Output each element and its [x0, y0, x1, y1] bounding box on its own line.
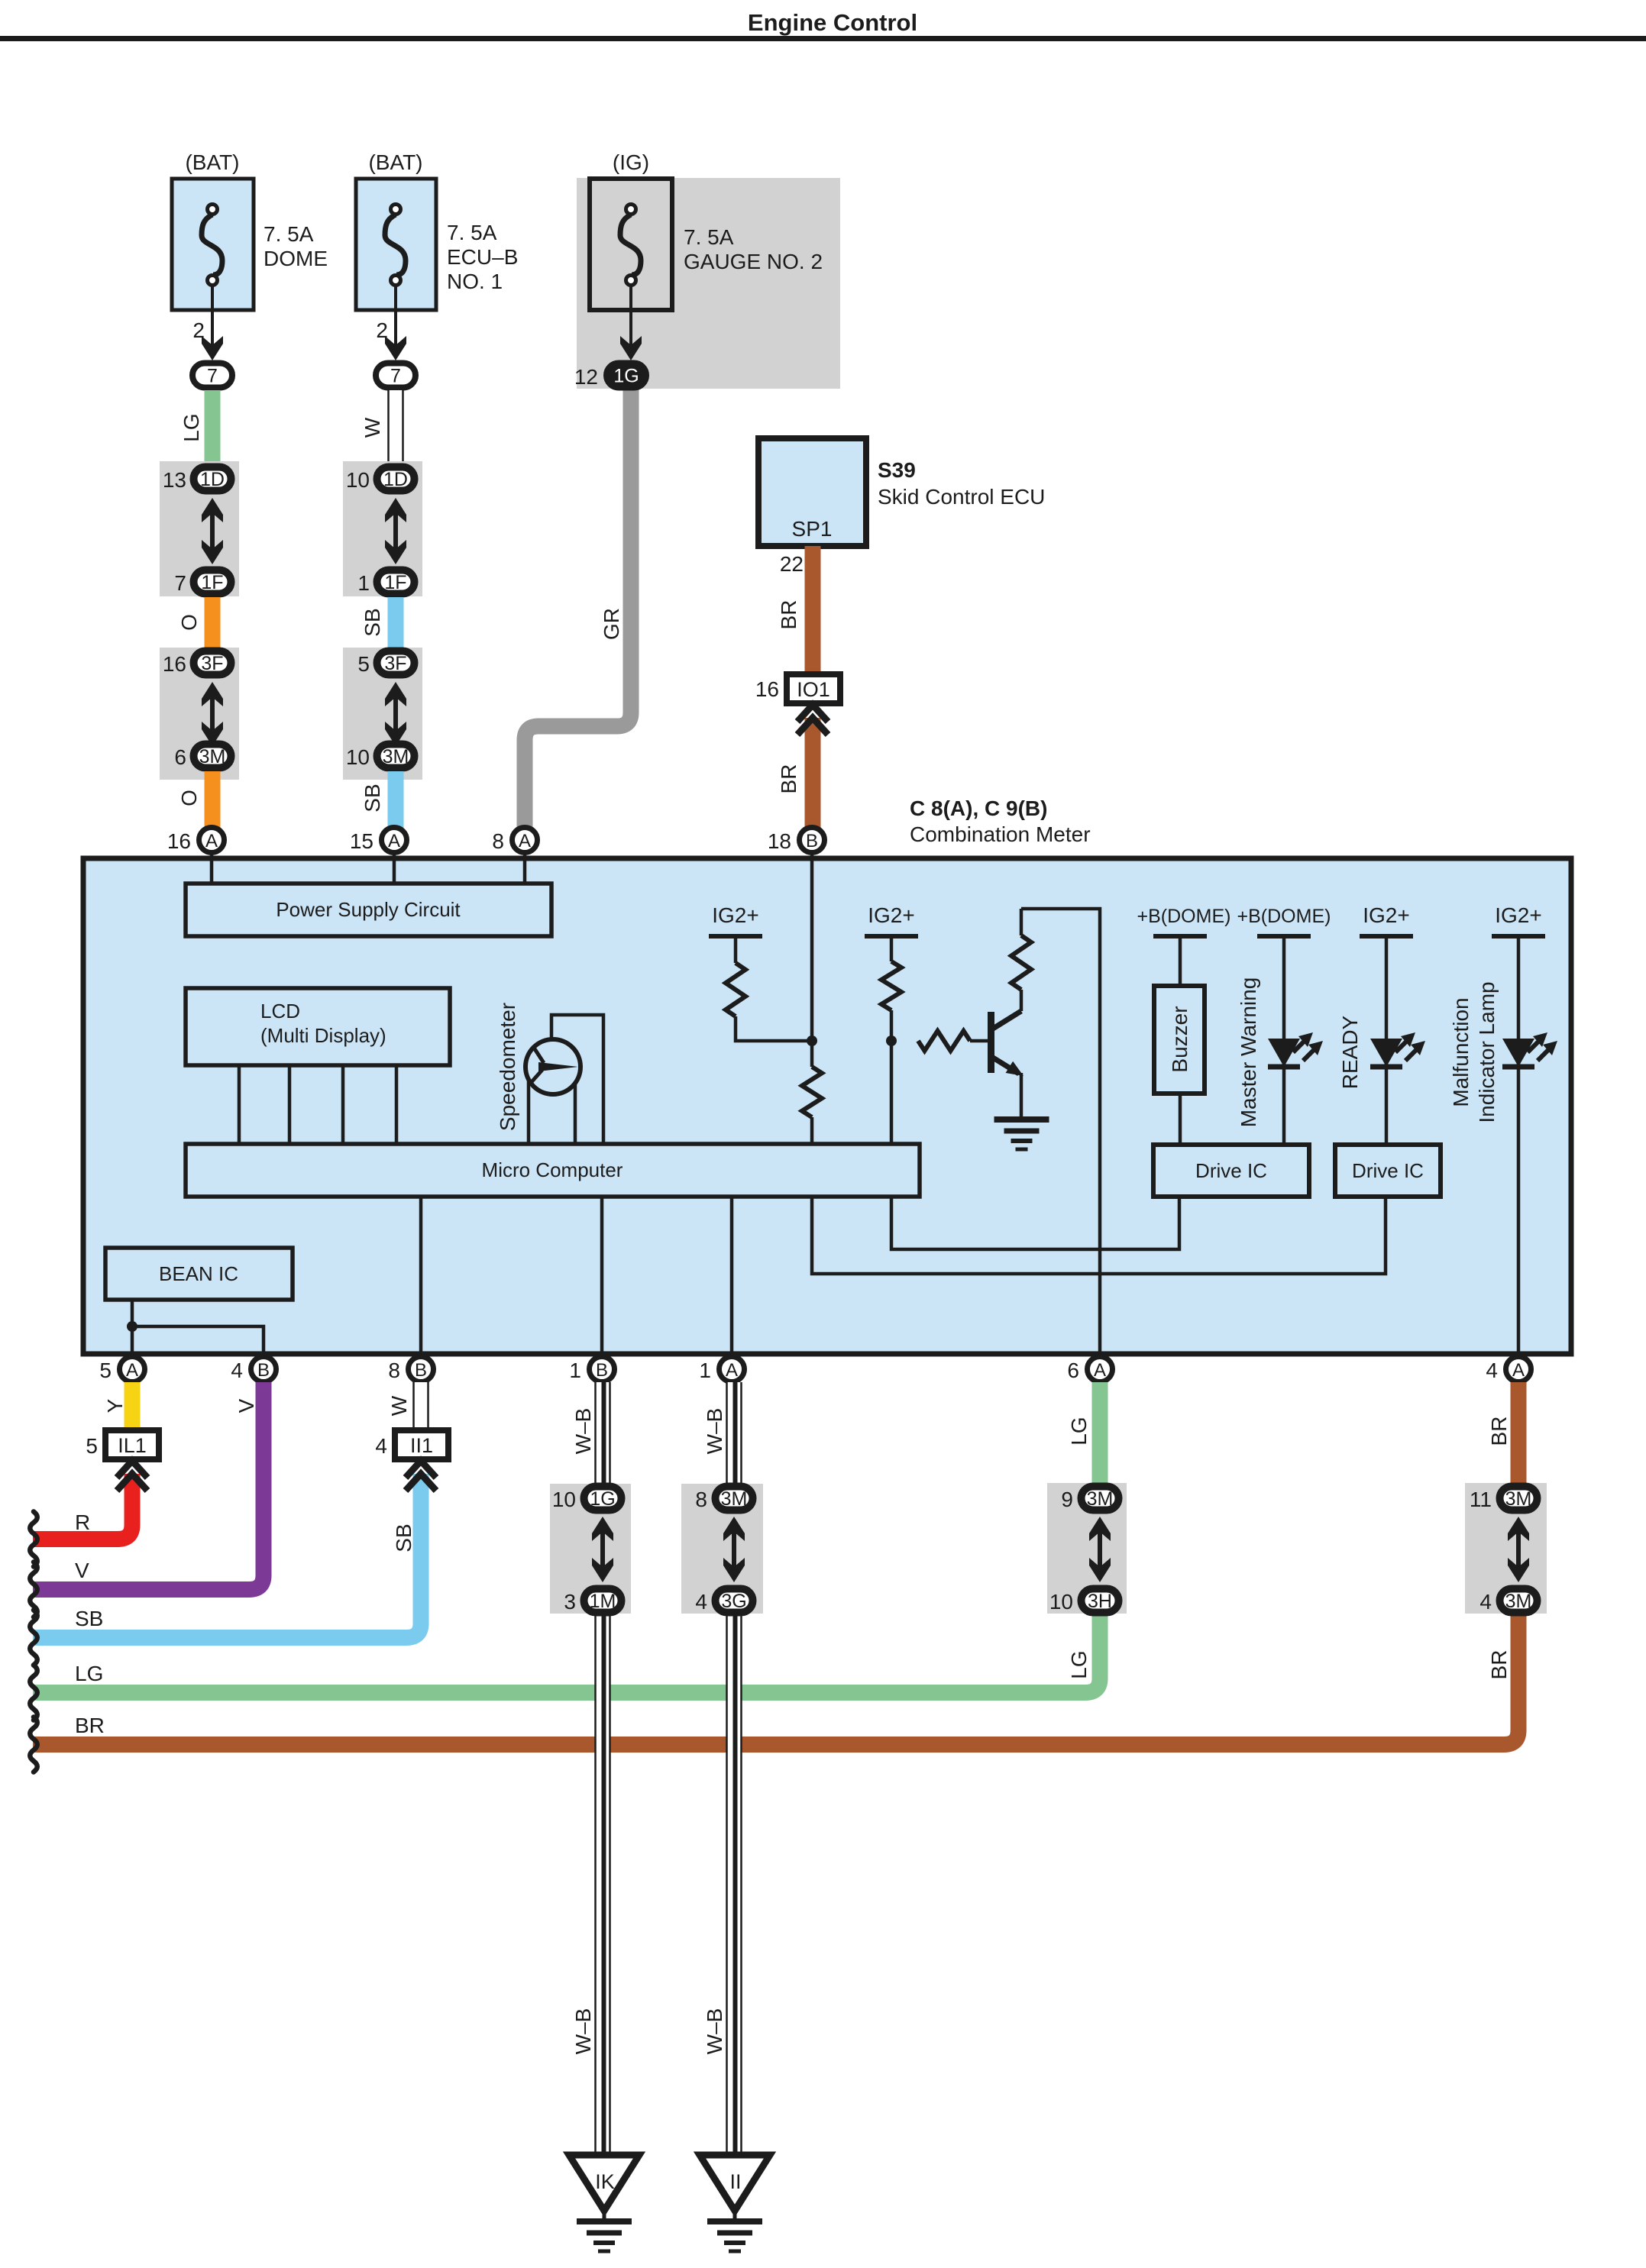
svg-text:Combination Meter: Combination Meter: [910, 822, 1091, 846]
wire BEAN IC to meter pin A5: [131, 1300, 134, 1357]
wire BR from pin A4 to harness break: [33, 1382, 1518, 1745]
svg-text:1F: 1F: [384, 572, 406, 593]
svg-text:10: 10: [346, 745, 370, 769]
svg-text:BEAN IC: BEAN IC: [159, 1262, 238, 1285]
svg-text:3M: 3M: [1505, 1488, 1532, 1510]
svg-text:10: 10: [552, 1488, 576, 1511]
Drive IC 2 block: [1335, 1145, 1441, 1197]
fuse F1 7.5A DOME (BAT): [172, 150, 328, 310]
node J2 junction dot: [886, 1035, 897, 1046]
gray panel behind GAUGE NO.2 fuse: [577, 178, 840, 389]
svg-text:LCD: LCD: [260, 1000, 300, 1023]
svg-text:W–B: W–B: [571, 2008, 595, 2055]
svg-text:Malfunction: Malfunction: [1449, 997, 1473, 1107]
resistor R1 from IG2+ to node J1: [709, 903, 812, 1041]
svg-text:SB: SB: [361, 608, 384, 636]
connector 3G pin 4: [695, 1589, 752, 1614]
svg-text:W–B: W–B: [703, 2008, 726, 2055]
meter pin A4: [1486, 1357, 1531, 1383]
svg-text:Y: Y: [103, 1398, 127, 1413]
wire R from IL1 to harness break: [33, 1474, 132, 1539]
svg-text:W: W: [361, 417, 384, 438]
svg-text:4: 4: [1479, 1590, 1492, 1614]
wire Y from pin A5 to IL1: [103, 1382, 132, 1430]
svg-text:(BAT): (BAT): [368, 150, 422, 174]
svg-text:LG: LG: [1067, 1417, 1091, 1445]
svg-text:16: 16: [167, 829, 191, 853]
speedometer legs and bracket: [529, 1015, 603, 1145]
svg-text:LG: LG: [75, 1662, 103, 1685]
svg-text:1F: 1F: [201, 572, 223, 593]
svg-text:1: 1: [357, 571, 370, 595]
ECU S39 Skid Control ECU: [758, 438, 1045, 546]
connector 1D pin 10: [346, 467, 415, 493]
wire fuse F2 to splice 7: [376, 286, 406, 360]
wire Micro Computer to meter pin B8: [419, 1195, 423, 1357]
connector 1M pin 3: [564, 1589, 621, 1614]
meter pin A8: [492, 828, 537, 854]
harness squiggle LG: [30, 1665, 37, 1720]
wire Micro Computer to Drive IC 2: [812, 1195, 1386, 1274]
svg-text:IG2+: IG2+: [1363, 903, 1409, 927]
harness squiggle SB: [30, 1611, 37, 1665]
junction block 3M/3G (W-B column 2): [681, 1484, 763, 1614]
svg-text:A: A: [726, 1360, 738, 1381]
svg-text:Micro Computer: Micro Computer: [482, 1158, 623, 1181]
fuse F3 7.5A GAUGE NO.2 (IG): [590, 150, 823, 310]
resistor R5 collector load: [1011, 909, 1031, 1011]
wire Micro Computer to meter pin B1: [600, 1195, 604, 1357]
resistor R3 from IG2+ to node J2: [865, 903, 918, 1041]
svg-text:A: A: [1094, 1360, 1106, 1381]
harness squiggle R: [30, 1512, 37, 1567]
ground G1 transistor emitter: [994, 1119, 1049, 1149]
harness squiggle BR: [30, 1717, 37, 1772]
wire meter pin A16 to Power Supply Circuit: [210, 853, 214, 886]
Power Supply Circuit block: [186, 884, 551, 936]
svg-text:1G: 1G: [613, 366, 639, 387]
Drive IC 1 block: [1153, 1145, 1309, 1197]
connector 1D pin 13: [163, 467, 231, 493]
svg-text:A: A: [519, 831, 531, 851]
wire fuse F3 to connector 1G: [620, 286, 642, 360]
svg-text:SB: SB: [361, 783, 384, 812]
svg-text:12: 12: [574, 365, 598, 389]
svg-text:DOME: DOME: [264, 247, 328, 270]
svg-text:B: B: [415, 1360, 427, 1381]
wire fuse F1 to splice 7: [192, 286, 223, 360]
svg-text:22: 22: [780, 552, 804, 576]
resistor R2 from node J1 to Micro Computer: [802, 1041, 822, 1145]
svg-text:7: 7: [174, 571, 186, 595]
meter pin B4: [231, 1357, 276, 1383]
svg-text:A: A: [126, 1360, 138, 1381]
svg-text:5: 5: [86, 1434, 98, 1458]
svg-text:W–B: W–B: [703, 1408, 726, 1455]
svg-text:LG: LG: [179, 413, 203, 441]
node junction dot BEAN branch: [127, 1321, 137, 1332]
fuse F2 7.5A ECU-B NO.1 (BAT): [356, 150, 518, 310]
svg-text:8: 8: [695, 1488, 707, 1511]
svg-text:3M: 3M: [1505, 1591, 1532, 1612]
wire W from splice 7 to connector 1D: [361, 390, 404, 464]
connector pair arrows 1D-1F: [202, 498, 223, 564]
connector 3M pin 8: [695, 1487, 752, 1512]
resistor R4 base resistor: [918, 1031, 991, 1051]
harness arrow below IL1: [117, 1461, 147, 1491]
label C 8(A), C 9(B) Combination Meter: [910, 796, 1091, 846]
svg-text:3M: 3M: [199, 746, 226, 767]
connector 3H pin 10: [1049, 1589, 1119, 1614]
wire O from 3M to meter pin A16: [177, 771, 212, 828]
svg-text:Indicator Lamp: Indicator Lamp: [1475, 981, 1499, 1123]
svg-text:SB: SB: [75, 1607, 103, 1630]
combination meter box: [83, 858, 1571, 1354]
svg-text:15: 15: [350, 829, 374, 853]
svg-text:4: 4: [375, 1434, 387, 1458]
wire W from pin B8 to II1: [387, 1382, 429, 1430]
junction block 1G/1M (W-B column 1): [550, 1484, 631, 1614]
transistor Q1: [988, 1011, 1027, 1082]
svg-text:16: 16: [163, 652, 186, 676]
junction block 3M/3H (LG column): [1047, 1483, 1127, 1614]
junction block 3F/3M (ECU-B column): [343, 648, 422, 780]
wire SB from II1 to harness break: [33, 1474, 421, 1638]
harness arrow below II1: [406, 1461, 436, 1491]
connector IO1 pin 16: [755, 674, 840, 703]
svg-text:7: 7: [390, 366, 401, 387]
svg-text:1: 1: [569, 1359, 581, 1382]
wire SB from 1F to 3F: [361, 597, 396, 648]
svg-text:A: A: [1512, 1360, 1525, 1381]
meter pin A15: [350, 828, 407, 854]
wire collector rail to meter pin A6: [1021, 909, 1100, 1357]
svg-text:11: 11: [1470, 1488, 1492, 1511]
svg-text:13: 13: [163, 468, 186, 492]
meter pin A16: [167, 828, 225, 854]
svg-text:NO. 1: NO. 1: [447, 270, 503, 293]
svg-text:(Multi Display): (Multi Display): [260, 1024, 386, 1047]
svg-text:READY: READY: [1338, 1015, 1362, 1089]
connector 1G pin 12 (gauge fuse): [574, 363, 646, 389]
svg-text:BR: BR: [777, 764, 800, 794]
wire SB from 3M to meter pin A15: [361, 771, 396, 828]
wire BR from S39 pin 22 to connector IO1: [777, 546, 813, 674]
connector 3M pin 10: [346, 745, 415, 770]
READY column IG2+: [1338, 903, 1413, 1145]
connector 3M pin 6: [174, 745, 231, 770]
connector 3M pin 4: [1479, 1589, 1537, 1614]
connector pair arrows 3F-3M: [202, 682, 223, 746]
speedometer symbol: [496, 1003, 580, 1131]
svg-text:Drive IC: Drive IC: [1352, 1159, 1424, 1182]
title Engine Control: [748, 9, 917, 36]
junction block 3F/3M (DOME column): [160, 648, 239, 780]
svg-text:5: 5: [99, 1359, 112, 1382]
connector 3M pin 9: [1061, 1487, 1118, 1512]
svg-text:3H: 3H: [1088, 1591, 1112, 1612]
wire LG from splice 7 to connector 1D: [179, 390, 212, 464]
svg-text:SP1: SP1: [792, 517, 833, 541]
svg-text:8: 8: [492, 829, 504, 853]
svg-text:IK: IK: [595, 2170, 615, 2193]
meter pin A6: [1067, 1357, 1112, 1383]
connector 3F pin 5: [357, 651, 414, 677]
svg-text:BR: BR: [777, 600, 800, 630]
svg-text:6: 6: [174, 745, 186, 769]
wire O from 1F to 3F: [177, 597, 212, 648]
wire W-B from pin B1 to ground IK: [571, 1382, 611, 2155]
svg-text:5: 5: [357, 652, 370, 676]
Master Warning column +B(DOME): [1237, 906, 1331, 1145]
svg-text:3: 3: [564, 1590, 576, 1614]
svg-text:4: 4: [231, 1359, 243, 1382]
ground IK: [569, 2155, 639, 2251]
svg-text:ECU–B: ECU–B: [447, 245, 518, 269]
svg-text:(IG): (IG): [613, 150, 649, 174]
harness squiggle V: [30, 1562, 37, 1617]
connector II1 pin 4: [375, 1430, 448, 1459]
wire meter pin A15 to Power Supply Circuit: [393, 853, 396, 886]
connector IL1 pin 5: [86, 1430, 159, 1459]
wire emitter to ground: [1020, 1073, 1023, 1119]
LED D2 READY: [1370, 1032, 1425, 1067]
svg-text:S39: S39: [878, 458, 916, 482]
svg-text:GR: GR: [600, 608, 623, 640]
connector pair arrows 1D-1F (col2): [385, 498, 406, 564]
title underline rule: [0, 36, 1646, 41]
wire meter pin B18 down to node J1: [810, 853, 814, 1041]
wire BR from IO1 to meter pin B18: [777, 718, 813, 828]
Buzzer column +B(DOME): [1137, 906, 1231, 1145]
LED D3 Malfunction Indicator Lamp: [1502, 1032, 1557, 1067]
meter pin B1: [569, 1357, 614, 1383]
svg-text:II: II: [729, 2170, 741, 2193]
svg-text:IG2+: IG2+: [712, 903, 758, 927]
Micro Computer block: [186, 1144, 920, 1197]
connector pair arrows 3M-3H: [1089, 1517, 1111, 1582]
splice 7 (ECU-B column): [376, 363, 416, 388]
svg-text:BR: BR: [75, 1714, 105, 1737]
svg-text:A: A: [388, 831, 400, 851]
connector 1G pin 10: [552, 1487, 622, 1512]
svg-text:3F: 3F: [384, 653, 406, 674]
svg-text:Drive IC: Drive IC: [1195, 1159, 1267, 1182]
svg-text:BR: BR: [1487, 1650, 1511, 1680]
wire node J2 down to Drive IC 1: [891, 1041, 1179, 1249]
svg-text:3M: 3M: [721, 1488, 748, 1510]
svg-text:(BAT): (BAT): [185, 150, 239, 174]
LCD (Multi Display) block: [186, 988, 450, 1065]
junction block 3M/3M (BR column): [1465, 1483, 1547, 1614]
wire LG from pin A6 to harness break: [33, 1382, 1100, 1693]
svg-text:B: B: [257, 1360, 270, 1381]
svg-text:Master Warning: Master Warning: [1237, 977, 1260, 1128]
buzzer BZ1: [1154, 986, 1205, 1094]
svg-text:+B(DOME): +B(DOME): [1237, 906, 1331, 927]
connector 3F pin 16: [163, 651, 231, 677]
svg-text:18: 18: [768, 829, 791, 853]
svg-text:4: 4: [1486, 1359, 1498, 1382]
Malfunction Indicator Lamp column IG2+: [1449, 903, 1545, 1357]
connector pair arrows 3F-3M (col2): [385, 682, 406, 746]
BEAN IC block: [105, 1248, 293, 1300]
svg-text:Engine Control: Engine Control: [748, 9, 917, 36]
meter pin B8: [388, 1357, 433, 1383]
svg-text:10: 10: [1049, 1590, 1073, 1614]
svg-text:C 8(A), C 9(B): C 8(A), C 9(B): [910, 796, 1047, 820]
svg-text:4: 4: [695, 1590, 707, 1614]
connector pair arrows 1G-1M: [592, 1517, 613, 1582]
connector 1F pin 1: [357, 570, 414, 596]
svg-text:B: B: [806, 831, 818, 851]
svg-text:Speedometer: Speedometer: [496, 1003, 519, 1131]
svg-text:8: 8: [388, 1359, 400, 1382]
svg-text:6: 6: [1067, 1359, 1079, 1382]
svg-text:7. 5A: 7. 5A: [447, 221, 497, 244]
svg-text:O: O: [177, 790, 201, 806]
svg-text:1G: 1G: [590, 1488, 615, 1510]
connector pair arrows 3M-3G: [723, 1517, 745, 1582]
svg-text:1D: 1D: [200, 469, 225, 490]
svg-text:9: 9: [1061, 1488, 1073, 1511]
wire GR from connector 1G to meter pin A8: [525, 386, 631, 828]
junction block 1D/1F (ECU-B column): [343, 461, 422, 596]
svg-text:7. 5A: 7. 5A: [264, 222, 314, 246]
wire meter pin A8 to Power Supply Circuit: [523, 853, 527, 886]
svg-text:+B(DOME): +B(DOME): [1137, 906, 1231, 927]
svg-text:10: 10: [346, 468, 370, 492]
node J1 junction dot: [807, 1035, 817, 1046]
svg-text:W–B: W–B: [571, 1408, 595, 1455]
svg-text:II1: II1: [410, 1434, 433, 1457]
meter pin B18: [768, 828, 825, 854]
svg-text:1D: 1D: [383, 469, 408, 490]
svg-text:LG: LG: [1067, 1650, 1091, 1678]
svg-text:3F: 3F: [201, 653, 223, 674]
harness arrow below IO1: [797, 705, 828, 735]
svg-text:IL1: IL1: [118, 1434, 147, 1457]
svg-text:W: W: [387, 1395, 411, 1416]
svg-text:7. 5A: 7. 5A: [684, 225, 734, 249]
meter pin A1: [699, 1357, 744, 1383]
svg-text:1M: 1M: [590, 1591, 616, 1612]
junction block 1D/1F (DOME column): [160, 461, 239, 596]
splice 7 (DOME column): [192, 363, 232, 388]
LED D1 Master Warning: [1268, 1032, 1323, 1067]
svg-text:GAUGE NO. 2: GAUGE NO. 2: [684, 250, 823, 273]
wire W-B from pin A1 to ground II: [703, 1382, 742, 2155]
wire V from pin B4 to harness break: [33, 1382, 264, 1590]
svg-text:O: O: [177, 614, 201, 631]
svg-text:Skid Control ECU: Skid Control ECU: [878, 485, 1045, 509]
svg-text:7: 7: [207, 366, 218, 387]
svg-text:V: V: [234, 1398, 258, 1413]
wires LCD to Micro Computer: [239, 1065, 396, 1145]
svg-text:16: 16: [755, 677, 779, 701]
wire Micro Computer to meter pin A1: [730, 1195, 734, 1357]
svg-text:1: 1: [699, 1359, 711, 1382]
meter pin A5: [99, 1357, 144, 1383]
svg-text:IG2+: IG2+: [868, 903, 914, 927]
connector 3M pin 11: [1470, 1487, 1538, 1512]
svg-text:IG2+: IG2+: [1495, 903, 1541, 927]
svg-text:3G: 3G: [721, 1591, 746, 1612]
svg-text:Power Supply Circuit: Power Supply Circuit: [276, 898, 461, 921]
svg-text:SB: SB: [392, 1523, 416, 1552]
svg-text:IO1: IO1: [797, 678, 830, 701]
svg-text:3M: 3M: [1087, 1488, 1114, 1510]
svg-text:3M: 3M: [383, 746, 409, 767]
wire BEAN branch to meter pin B4: [132, 1326, 264, 1357]
svg-text:V: V: [75, 1559, 89, 1582]
svg-text:A: A: [205, 831, 218, 851]
svg-text:BR: BR: [1487, 1417, 1511, 1446]
connector 1F pin 7: [174, 570, 231, 596]
ground II: [700, 2155, 770, 2251]
connector pair arrows 3M-3M: [1508, 1517, 1529, 1582]
svg-text:Buzzer: Buzzer: [1168, 1006, 1192, 1072]
svg-text:B: B: [596, 1360, 608, 1381]
svg-text:R: R: [75, 1510, 90, 1534]
